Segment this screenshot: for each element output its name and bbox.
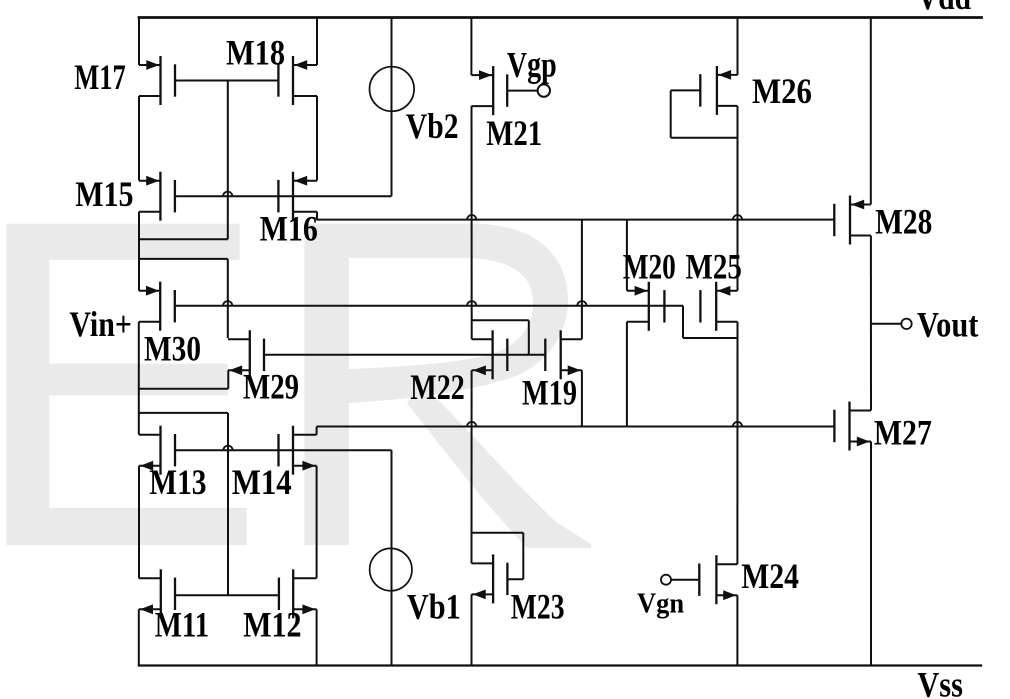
label M13 xyxy=(149,462,206,502)
wire M26 gate hook vertical xyxy=(670,90,672,137)
transistor M22 xyxy=(472,330,508,379)
transistor M27 xyxy=(834,402,871,451)
label M19 xyxy=(522,372,577,412)
wire M24 source to rail xyxy=(736,595,738,666)
transistor M19 xyxy=(545,330,582,379)
svg-text:M14: M14 xyxy=(232,462,292,502)
svg-text:M21: M21 xyxy=(486,113,542,153)
wire M18 drain to M16 source xyxy=(316,96,318,181)
transistor M16 xyxy=(278,172,317,221)
wire M22 source to M23 drain xyxy=(471,370,473,563)
svg-text:M26: M26 xyxy=(752,71,812,111)
wire M17 M18 gate bus xyxy=(175,80,278,82)
terminal Vout xyxy=(901,319,911,329)
wire M30 drain to M13 drain xyxy=(138,322,140,435)
wire gate tap vertical xyxy=(227,413,229,595)
junction hops xyxy=(223,192,742,451)
label Vgn xyxy=(637,589,685,620)
label M30 xyxy=(144,329,201,369)
label M27 xyxy=(874,413,932,453)
wire M20 drain to node C xyxy=(626,322,628,427)
wire node C horizontal xyxy=(317,426,835,428)
svg-text:M22: M22 xyxy=(410,367,465,407)
svg-text:M11: M11 xyxy=(155,604,209,644)
transistor M12 xyxy=(279,569,317,618)
svg-text:M20: M20 xyxy=(623,246,676,286)
wire M13 M14 gate bus to Vb1 xyxy=(175,449,392,451)
label M12 xyxy=(243,604,302,644)
wire Vgp lead xyxy=(507,90,537,92)
wire rail to M17 source xyxy=(138,17,140,66)
transistor M25 xyxy=(700,282,737,331)
svg-text:M25: M25 xyxy=(686,246,742,286)
wire M28 drain to M27 drain xyxy=(870,236,872,411)
transistor M26 xyxy=(700,66,737,115)
wire M21 drain to M22 drain xyxy=(471,106,473,339)
wire M25 drain to M24 drain xyxy=(736,322,738,564)
svg-text:M16: M16 xyxy=(260,209,318,249)
transistor M13 xyxy=(139,426,175,475)
Vdd rail xyxy=(138,16,983,19)
wire M22 gate tap vertical xyxy=(528,320,530,355)
svg-text:M30: M30 xyxy=(144,329,201,369)
label M18 xyxy=(226,32,285,72)
svg-text:M17: M17 xyxy=(74,57,126,97)
transistor M21 xyxy=(471,66,507,115)
svg-text:M29: M29 xyxy=(243,367,299,407)
svg-text:Vout: Vout xyxy=(917,304,979,344)
wire gate bus vertical xyxy=(227,81,229,240)
label Vgp xyxy=(507,45,557,85)
wire Vout lead xyxy=(871,323,901,325)
wire node B down jog xyxy=(682,306,684,338)
wire rail to M26 source xyxy=(737,17,739,75)
label M29 xyxy=(243,367,299,407)
label Vb1 xyxy=(407,586,461,626)
transistor M23 xyxy=(472,554,508,603)
svg-text:Vin+: Vin+ xyxy=(69,304,131,344)
wire node A to M20 source xyxy=(626,220,628,291)
wire M13 source to M11 drain xyxy=(138,466,140,579)
transistor M15 xyxy=(139,172,175,221)
wire M26 gate hook bottom xyxy=(671,137,738,139)
wire M11 source to rail xyxy=(138,609,140,666)
transistor M18 xyxy=(278,56,317,105)
terminal Vgp xyxy=(538,84,550,96)
label Vb2 xyxy=(406,106,459,146)
label M22 xyxy=(410,367,465,407)
wire M26 drain to M25 source xyxy=(737,106,739,291)
watermark letter R xyxy=(304,224,591,548)
current source Vb1 xyxy=(370,548,412,590)
label Vout xyxy=(917,304,979,344)
transistor M17 xyxy=(139,56,175,105)
transistor M20 xyxy=(627,282,665,331)
wire node A to M19 drain xyxy=(581,220,583,340)
label M16 xyxy=(260,209,318,249)
wire M17 drain to M15 source xyxy=(138,96,140,181)
svg-text:M23: M23 xyxy=(511,586,565,626)
label M15 xyxy=(75,174,133,214)
wire node B to M25 drain xyxy=(683,337,738,339)
wire M27 source to rail xyxy=(870,442,872,667)
wire M29 source down xyxy=(227,370,229,389)
svg-text:M19: M19 xyxy=(522,372,577,412)
label M28 xyxy=(875,201,932,241)
wire rail through Vb2 xyxy=(391,17,393,197)
wire Vgn lead xyxy=(671,579,699,581)
wire left column gate tap xyxy=(139,412,228,414)
watermark letter E xyxy=(6,224,246,545)
svg-text:M27: M27 xyxy=(874,413,932,453)
transistor M28 xyxy=(834,196,871,245)
label Vin+ xyxy=(69,304,131,344)
transistor M24 xyxy=(699,555,737,604)
wire node B horizontal xyxy=(175,305,683,307)
label M25 xyxy=(686,246,742,286)
wire M26 gate lead xyxy=(671,89,701,91)
transistor M11 xyxy=(139,569,175,618)
label M21 xyxy=(486,113,542,153)
wire M12 source to rail xyxy=(316,609,318,666)
wire M22 gate tap xyxy=(472,319,529,321)
wire M15 drain to M30 source xyxy=(138,212,140,291)
wire M15 drain tap lower xyxy=(139,258,228,260)
transistor M30 xyxy=(139,282,175,331)
Vss rail xyxy=(138,664,982,666)
label M17 xyxy=(74,57,126,97)
wire M15 drain tap upper xyxy=(139,238,228,240)
wire M29 M22 M19 gate bus xyxy=(264,354,545,356)
svg-text:Vgn: Vgn xyxy=(637,589,685,620)
wire M11 M12 gate bus xyxy=(175,594,279,596)
label M11 xyxy=(155,604,209,644)
svg-text:M18: M18 xyxy=(226,32,285,72)
wire M29 source to left column xyxy=(139,388,229,390)
svg-text:Vdd: Vdd xyxy=(917,0,971,17)
svg-text:M15: M15 xyxy=(75,174,133,214)
label M20 xyxy=(623,246,676,286)
wire M15 M16 gate bus to Vb2 xyxy=(175,195,392,197)
label Vdd xyxy=(917,0,971,17)
wire M19 source to node C xyxy=(581,370,583,426)
label M23 xyxy=(511,586,565,626)
label M26 xyxy=(752,71,812,111)
svg-text:Vgp: Vgp xyxy=(507,45,557,85)
wire rail to M18 source xyxy=(316,17,318,66)
transistor M29 xyxy=(228,330,264,379)
label Vss xyxy=(917,664,963,699)
wire rail to M21 source xyxy=(470,17,472,76)
terminal Vgn xyxy=(661,575,671,585)
wire M14 drain jog xyxy=(316,427,318,435)
wire rail to M28 source xyxy=(870,17,872,205)
svg-text:M24: M24 xyxy=(741,556,799,596)
svg-text:Vb2: Vb2 xyxy=(406,106,459,146)
label M24 xyxy=(741,556,799,596)
wire node A horizontal xyxy=(317,219,835,221)
current source Vb2 xyxy=(370,67,415,112)
transistor M14 xyxy=(279,426,317,475)
label M14 xyxy=(232,462,292,502)
svg-text:M13: M13 xyxy=(149,462,206,502)
wire M23 gate hook top xyxy=(472,532,524,534)
svg-text:M28: M28 xyxy=(875,201,932,241)
svg-text:M12: M12 xyxy=(243,604,302,644)
wire M23 source to rail xyxy=(471,594,473,666)
svg-text:Vss: Vss xyxy=(917,664,963,699)
svg-text:Vb1: Vb1 xyxy=(407,586,461,626)
wire Vb1 to rail xyxy=(391,450,393,666)
wire M14 source to M12 drain xyxy=(316,466,318,579)
wire M23 gate hook to gate xyxy=(507,578,523,580)
wire M23 gate hook vertical xyxy=(522,533,524,580)
wire tap down to M29 drain xyxy=(227,259,229,338)
wire M16 drain jog xyxy=(316,212,318,220)
